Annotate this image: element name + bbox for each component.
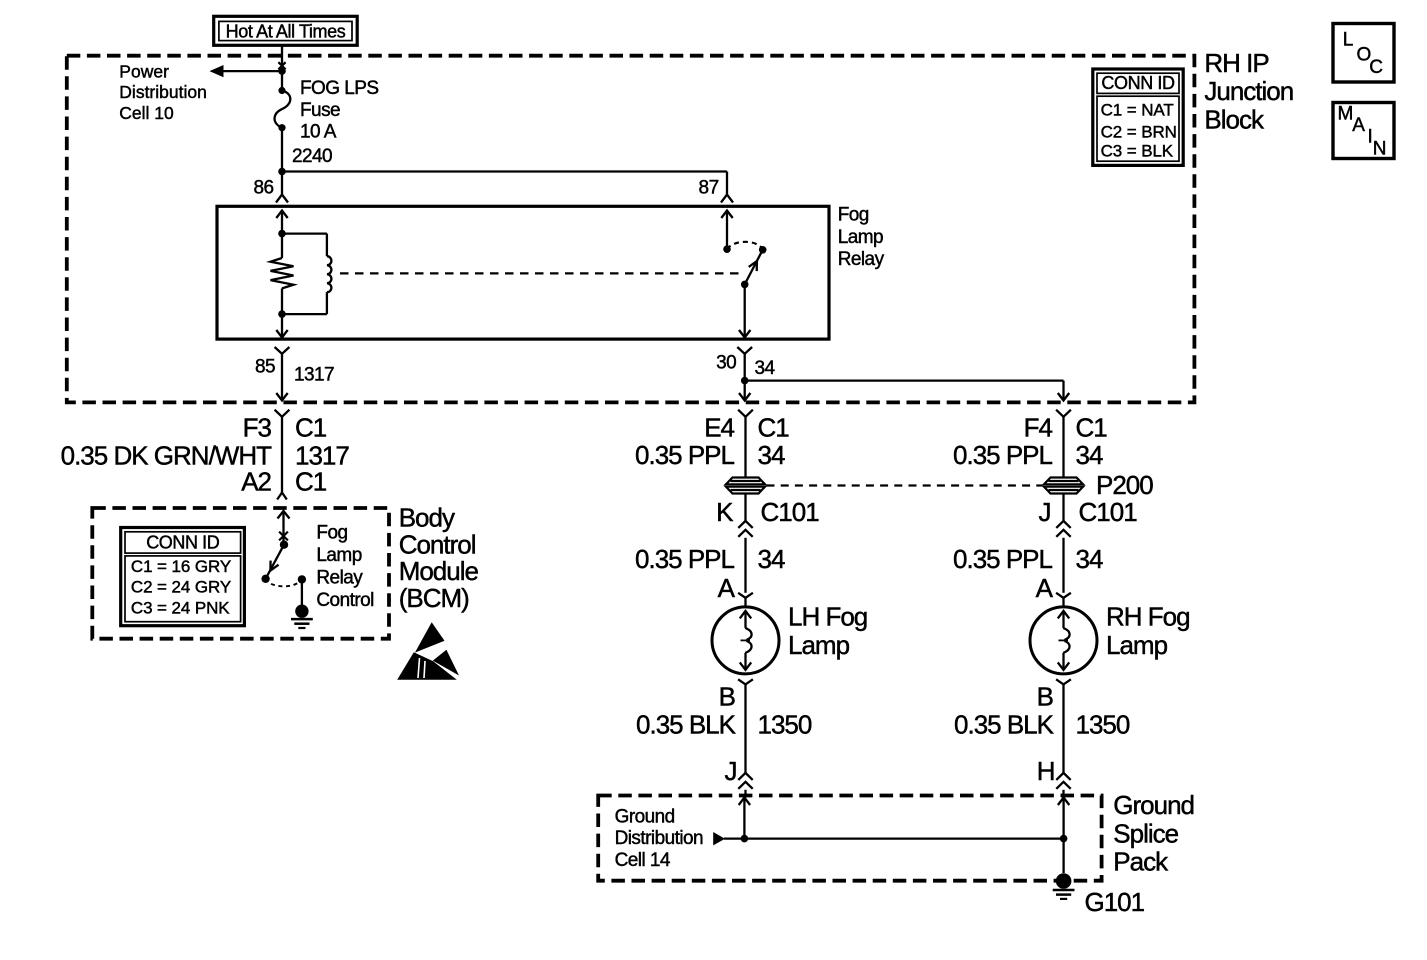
svg-text:C101: C101 [761, 497, 820, 527]
svg-text:0.35 BLK: 0.35 BLK [954, 710, 1055, 740]
svg-text:Control: Control [399, 529, 476, 559]
svg-text:G101: G101 [1085, 887, 1145, 917]
svg-text:0.35 PPL: 0.35 PPL [953, 440, 1053, 470]
svg-text:A: A [718, 573, 736, 603]
svg-text:C2 = 24 GRY: C2 = 24 GRY [131, 578, 231, 597]
svg-text:Fuse: Fuse [300, 100, 340, 121]
svg-text:34: 34 [758, 544, 785, 574]
svg-text:C2 = BRN: C2 = BRN [1101, 123, 1177, 142]
svg-text:J: J [1039, 497, 1051, 527]
svg-text:C1: C1 [758, 413, 790, 443]
svg-text:34: 34 [758, 440, 785, 470]
svg-text:C3 = BLK: C3 = BLK [1101, 142, 1174, 161]
svg-text:N: N [1373, 138, 1386, 159]
svg-text:34: 34 [755, 358, 776, 379]
svg-text:L: L [1343, 29, 1353, 50]
svg-text:Control: Control [316, 590, 373, 611]
svg-text:Distribution: Distribution [119, 82, 207, 102]
svg-text:Ground: Ground [1113, 790, 1194, 820]
svg-text:Distribution: Distribution [615, 828, 703, 849]
svg-text:Splice: Splice [1113, 818, 1178, 848]
svg-text:Cell 10: Cell 10 [119, 103, 174, 123]
svg-text:1350: 1350 [758, 710, 812, 740]
svg-text:1350: 1350 [1076, 710, 1130, 740]
svg-text:E4: E4 [704, 413, 734, 443]
svg-text:C1 = NAT: C1 = NAT [1101, 100, 1174, 119]
svg-text:B: B [1037, 682, 1053, 712]
svg-text:Block: Block [1204, 104, 1265, 134]
svg-text:Hot At All Times: Hot At All Times [226, 22, 346, 42]
svg-text:J: J [725, 756, 737, 786]
svg-text:Ground: Ground [615, 807, 675, 828]
svg-text:C1: C1 [295, 413, 327, 443]
svg-text:0.35 PPL: 0.35 PPL [953, 544, 1053, 574]
svg-text:30: 30 [716, 353, 736, 374]
svg-text:P200: P200 [1096, 470, 1153, 500]
svg-text:Cell 14: Cell 14 [615, 850, 671, 871]
svg-text:10 A: 10 A [300, 122, 337, 143]
svg-text:34: 34 [1076, 440, 1103, 470]
svg-text:A: A [1352, 115, 1365, 136]
svg-text:85: 85 [255, 357, 275, 378]
svg-text:Lamp: Lamp [788, 630, 850, 660]
svg-text:Module: Module [399, 556, 479, 586]
svg-text:Fog: Fog [838, 205, 869, 226]
svg-text:C: C [1369, 57, 1382, 78]
svg-text:Power: Power [119, 61, 169, 81]
svg-text:I: I [1368, 127, 1373, 148]
svg-text:C1: C1 [1076, 413, 1108, 443]
svg-text:F4: F4 [1024, 413, 1053, 443]
svg-text:2240: 2240 [292, 146, 332, 167]
svg-text:(BCM): (BCM) [399, 583, 469, 613]
svg-text:RH Fog: RH Fog [1106, 601, 1190, 631]
svg-text:Lamp: Lamp [838, 227, 883, 248]
svg-text:H: H [1037, 756, 1055, 786]
svg-text:Fog: Fog [316, 523, 347, 544]
svg-text:0.35 PPL: 0.35 PPL [635, 544, 735, 574]
svg-text:CONN ID: CONN ID [146, 532, 220, 552]
svg-text:Lamp: Lamp [316, 545, 361, 566]
svg-text:LH Fog: LH Fog [788, 601, 867, 631]
svg-text:0.35 PPL: 0.35 PPL [635, 440, 735, 470]
svg-text:C1 = 16 GRY: C1 = 16 GRY [131, 557, 231, 576]
svg-text:Relay: Relay [316, 568, 363, 589]
svg-text:34: 34 [1076, 544, 1103, 574]
svg-text:Relay: Relay [838, 249, 885, 270]
svg-text:A: A [1036, 573, 1054, 603]
svg-text:Lamp: Lamp [1106, 630, 1168, 660]
svg-text:1317: 1317 [294, 365, 334, 386]
svg-text:C101: C101 [1079, 497, 1138, 527]
svg-text:87: 87 [699, 178, 719, 199]
svg-text:A2: A2 [241, 467, 271, 497]
svg-text:C1: C1 [295, 467, 327, 497]
svg-text:Body: Body [399, 503, 455, 533]
svg-text:FOG LPS: FOG LPS [300, 78, 379, 99]
svg-text:Junction: Junction [1204, 76, 1293, 106]
svg-text:C3 = 24 PNK: C3 = 24 PNK [131, 598, 230, 617]
svg-text:F3: F3 [243, 413, 272, 443]
svg-text:0.35 BLK: 0.35 BLK [636, 710, 737, 740]
svg-text:M: M [1338, 104, 1353, 125]
svg-text:B: B [719, 682, 735, 712]
svg-text:K: K [716, 497, 734, 527]
svg-text:86: 86 [253, 178, 273, 199]
svg-text:Pack: Pack [1113, 847, 1169, 877]
svg-text:RH IP: RH IP [1204, 48, 1268, 78]
svg-text:CONN ID: CONN ID [1101, 73, 1175, 93]
